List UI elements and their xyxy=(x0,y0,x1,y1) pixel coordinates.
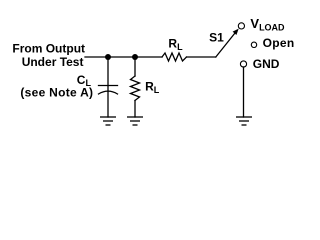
ground under CL xyxy=(100,117,116,125)
svg-text:From Output: From Output xyxy=(12,42,85,56)
ground under RL vertical xyxy=(127,117,143,125)
svg-text:Under Test: Under Test xyxy=(22,55,84,69)
svg-text:GND: GND xyxy=(253,57,280,71)
terminal VLOAD circle xyxy=(238,23,244,29)
node A junction dot xyxy=(105,54,111,60)
terminal GND circle xyxy=(240,61,246,67)
svg-text:Open: Open xyxy=(263,36,295,50)
resistor RL horizontal zigzag xyxy=(162,53,187,61)
switch S1 arm xyxy=(216,33,235,57)
ground under GND terminal xyxy=(236,117,252,125)
wire capacitor CL top lead xyxy=(107,57,109,86)
wire GND terminal lead xyxy=(243,67,245,117)
terminal Open circle xyxy=(251,42,256,47)
svg-text:(see Note A): (see Note A) xyxy=(20,85,93,99)
switch S1 arrowhead xyxy=(233,29,239,35)
wire resistor to switch pole xyxy=(187,56,216,58)
resistor RL vertical zigzag xyxy=(131,76,140,101)
node B junction dot xyxy=(132,54,138,60)
wire from output under test to node A xyxy=(85,56,162,58)
capacitor CL top plate xyxy=(99,85,118,87)
capacitor CL curved bottom plate xyxy=(99,91,118,94)
wire capacitor CL bottom lead xyxy=(107,86,109,117)
svg-text:S1: S1 xyxy=(209,30,224,44)
wire node B to resistor RL vertical xyxy=(134,57,136,76)
wire resistor RL vertical bottom lead xyxy=(134,101,136,118)
